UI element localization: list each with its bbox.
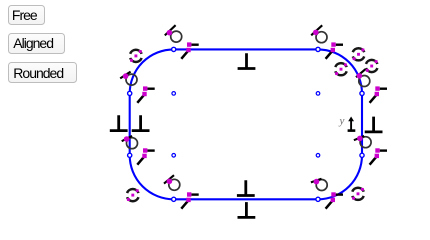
- arc center marker C2 (top-right): [316, 92, 320, 96]
- tangent icon T2 (top edge, left node): [165, 25, 182, 42]
- rounded rectangle path: [130, 49, 362, 199]
- equal-radius icon E5 (bottom-left arc): [127, 189, 139, 201]
- vertical arrow icon (right edge midpoint, inside): [348, 117, 356, 132]
- arc center marker C1 (top-left): [172, 92, 176, 96]
- node N3 (top edge, right): [316, 47, 320, 51]
- node N4 (right edge, upper): [360, 91, 364, 95]
- perpendicular icon P6 (right edge midpoint, outside): [365, 117, 383, 132]
- handle S8 at node N8: [137, 148, 154, 164]
- tangent icon T8 (left edge, lower node): [122, 136, 138, 149]
- button Free: [8, 5, 45, 25]
- handle S6 at node N6: [326, 192, 343, 208]
- svg-text:y: y: [339, 115, 345, 127]
- equal-radius icon E3 (top-right arc, upper): [353, 48, 365, 60]
- handle S1 at node N1: [137, 86, 154, 102]
- equal-radius icon E2 (top-right arc, inner): [335, 63, 347, 75]
- handle S3 at node N3: [326, 42, 343, 58]
- button Rounded: [8, 62, 77, 83]
- perpendicular icon P3 (left edge midpoint, inside): [132, 115, 150, 130]
- perpendicular icon P5 (bottom edge midpoint, below): [238, 202, 256, 217]
- tangent icon T1 (left edge, upper node): [120, 72, 137, 86]
- tangent icon T4 (right edge, upper node): [356, 69, 370, 86]
- equal-radius icon E4 (top-right arc, outer): [366, 60, 378, 72]
- node N8 (left edge, lower): [128, 153, 132, 157]
- node N1 (left edge, upper): [128, 91, 132, 95]
- handle S4 at node N4: [370, 86, 387, 102]
- node N5 (right edge, lower): [360, 153, 364, 157]
- tangent icon T5 (right edge, lower node): [354, 136, 371, 148]
- button Aligned: [8, 33, 65, 54]
- node N2 (top edge, left): [172, 47, 176, 51]
- handle S5 at node N5: [370, 148, 387, 164]
- perpendicular icon P2 (left edge midpoint, outside): [110, 115, 128, 130]
- node N6 (bottom edge, right): [316, 197, 320, 201]
- perpendicular icon P1 (top edge midpoint): [238, 53, 256, 68]
- equal-radius icon E6 (bottom-right arc): [352, 188, 364, 200]
- node N7 (bottom edge, left): [172, 197, 176, 201]
- tangent icon T7 (bottom edge, left node): [164, 175, 180, 190]
- label y: [339, 115, 345, 127]
- equal-radius icon E1 (top-left arc): [130, 50, 142, 62]
- handle S2 at node N2: [181, 42, 198, 58]
- arc center marker C4 (bottom-left): [172, 154, 176, 158]
- tangent icon T3 (top edge, right node): [311, 25, 327, 42]
- handle S7 at node N7: [181, 192, 198, 208]
- perpendicular icon P4 (bottom edge midpoint, above): [237, 180, 255, 195]
- tangent icon T6 (bottom edge, right node): [311, 179, 327, 191]
- arc center marker C3 (bottom-right): [316, 154, 320, 158]
